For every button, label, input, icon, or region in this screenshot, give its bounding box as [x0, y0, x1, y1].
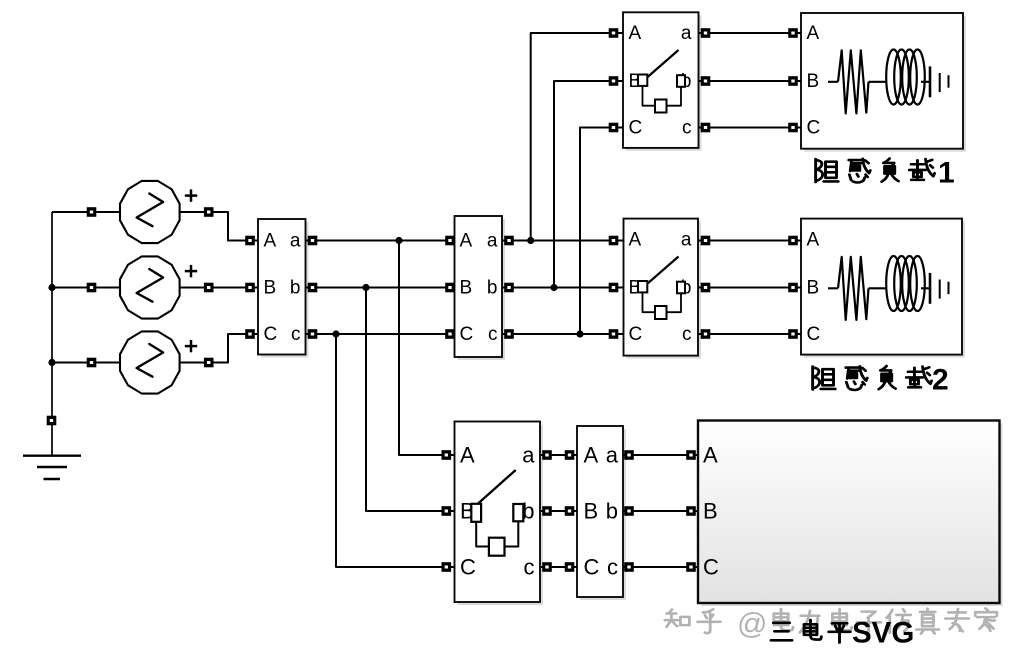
svg-text:a: a [681, 229, 692, 250]
svg-text:A: A [460, 230, 473, 251]
svg-text:@: @ [737, 608, 767, 641]
svg-text:C: C [807, 324, 821, 345]
svg-text:A: A [264, 230, 277, 251]
svg-text:b: b [606, 498, 618, 523]
svg-text:c: c [524, 554, 535, 579]
svg-text:c: c [291, 324, 301, 345]
svg-text:A: A [703, 442, 718, 467]
svg-text:C: C [629, 324, 643, 345]
svg-text:SVG: SVG [852, 617, 914, 650]
svg-text:c: c [607, 554, 618, 579]
svg-text:B: B [584, 498, 599, 523]
svg-text:a: a [522, 442, 535, 467]
svg-text:B: B [264, 277, 277, 298]
svg-text:A: A [629, 23, 642, 44]
svg-text:A: A [584, 442, 599, 467]
svg-text:A: A [807, 229, 820, 250]
svg-text:C: C [584, 554, 600, 579]
svg-text:c: c [488, 324, 498, 345]
svg-text:b: b [290, 277, 301, 298]
svg-text:a: a [290, 230, 301, 251]
svg-text:b: b [487, 277, 498, 298]
svg-text:A: A [460, 442, 475, 467]
svg-text:B: B [460, 277, 473, 298]
svg-text:c: c [682, 117, 692, 138]
svg-text:B: B [703, 498, 718, 523]
svg-text:C: C [264, 324, 278, 345]
svg-text:A: A [807, 23, 820, 44]
svg-text:C: C [807, 117, 821, 138]
svg-text:1: 1 [938, 156, 955, 189]
svg-text:c: c [682, 324, 692, 345]
svg-text:A: A [629, 229, 642, 250]
svg-text:C: C [460, 324, 474, 345]
svg-text:C: C [629, 117, 643, 138]
svg-text:B: B [807, 71, 820, 92]
svg-text:B: B [807, 277, 820, 298]
svg-text:a: a [681, 23, 692, 44]
svg-text:a: a [487, 230, 498, 251]
svg-text:C: C [460, 554, 476, 579]
svg-text:a: a [606, 442, 619, 467]
svg-text:C: C [703, 554, 719, 579]
svg-text:2: 2 [932, 364, 949, 397]
